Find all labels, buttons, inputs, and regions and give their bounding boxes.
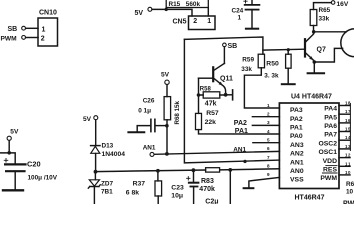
svg-text:AN1: AN1 [233, 147, 246, 154]
junction dot emitter Q7 [313, 60, 317, 64]
wire top-left L to R59 top [184, 37, 263, 54]
svg-text:AN3: AN3 [290, 142, 304, 149]
terminal 5V (D13) [94, 116, 98, 120]
svg-text:CN5: CN5 [173, 18, 187, 25]
svg-text:3. 3k: 3. 3k [264, 73, 279, 80]
svg-text:5V: 5V [10, 129, 19, 136]
junction dot R15/5V [165, 8, 168, 11]
wire R50 top stub [287, 50, 289, 55]
junction dot C26 [165, 124, 169, 128]
wire D13 to junction [95, 154, 97, 173]
svg-text:R65: R65 [319, 7, 331, 14]
junction dot collector Q7 [312, 30, 316, 34]
resistor R57 22k [196, 113, 202, 129]
svg-text:2: 2 [41, 36, 45, 43]
svg-text:ZD7: ZD7 [101, 181, 114, 188]
svg-text:R58: R58 [200, 86, 212, 92]
wire R50 bottom to ground [287, 68, 289, 83]
svg-text:PA5: PA5 [324, 114, 337, 121]
svg-text:R15: R15 [169, 1, 181, 8]
junction dot pin7 wire [243, 160, 246, 163]
overline PWM [323, 172, 338, 174]
wire VSS to ground [249, 177, 280, 187]
svg-text:AN0: AN0 [290, 168, 304, 175]
overline RES [326, 165, 337, 167]
svg-text:Q11: Q11 [220, 75, 233, 82]
svg-text:U4 HT46R47: U4 HT46R47 [291, 93, 332, 100]
svg-text:R37: R37 [133, 180, 146, 187]
svg-text:PA4: PA4 [324, 106, 337, 113]
svg-text:9: 9 [267, 172, 270, 177]
ground (C24) [246, 28, 258, 30]
svg-text:PWM: PWM [320, 175, 337, 182]
wire R15 left lead [165, 8, 167, 10]
svg-text:C24: C24 [232, 7, 244, 14]
wire 5V to CN5 pin 2 [152, 9, 192, 16]
junction dot Q11 emitter [224, 93, 228, 97]
junction dot AN1 [165, 152, 169, 156]
resistor R68 15k [164, 97, 171, 120]
svg-text:16V: 16V [337, 1, 349, 8]
svg-text:C20: C20 [27, 159, 41, 168]
ground (C26) [128, 131, 144, 133]
svg-text:OSC2: OSC2 [318, 140, 337, 147]
svg-text:VSS: VSS [290, 177, 304, 184]
ground (C20) [3, 189, 23, 191]
svg-text:10: 10 [345, 170, 351, 175]
terminal 5V (top) [148, 7, 152, 11]
wire stub pin 2 [252, 116, 279, 118]
svg-text:2: 2 [193, 18, 197, 25]
svg-text:PWM: PWM [1, 35, 18, 42]
svg-text:PA1: PA1 [235, 128, 248, 135]
terminal 5V (C20) [7, 136, 11, 140]
resistor R37 6.8k [157, 171, 159, 181]
wire stub pin 5 [253, 142, 280, 144]
wire emitter to stub bar [226, 94, 232, 96]
wire base rail to Q7 [263, 48, 304, 51]
wire R57 bottom to IC pin 4 [199, 130, 280, 134]
svg-text:PA1: PA1 [290, 125, 303, 132]
wire R59 bottom to IC pin 1 [244, 68, 279, 108]
wire stub pin 15 [339, 131, 350, 133]
svg-text:6: 6 [267, 146, 270, 151]
svg-text:8: 8 [267, 164, 270, 169]
wire emitter to motor lower terminal [316, 48, 343, 62]
svg-text:22k: 22k [205, 119, 217, 126]
wire R15 right lead to CN5 pin 1 [207, 8, 209, 17]
svg-text:PA7: PA7 [324, 132, 337, 139]
svg-text:33k: 33k [319, 15, 330, 22]
svg-text:11: 11 [345, 161, 351, 166]
svg-text:R83: R83 [201, 178, 214, 185]
ground (Q7 emitter) [308, 72, 325, 74]
zener ZD7 7B1 [94, 172, 96, 180]
resistor R65 33k [310, 10, 317, 26]
svg-text:R6: R6 [346, 181, 354, 188]
svg-text:560k: 560k [186, 1, 201, 8]
diode D13 1N4004 [91, 145, 100, 147]
svg-text:C2μ: C2μ [205, 199, 218, 204]
ground (R50) [282, 83, 295, 85]
wire big L to IC pin 7 [184, 39, 279, 162]
wire SB to Q11 collector [223, 47, 225, 64]
capacitor C23 10u [193, 170, 195, 182]
svg-text:PA2: PA2 [234, 120, 247, 127]
wire AN1 to IC pin 6 [154, 151, 279, 154]
svg-text:R57: R57 [206, 110, 219, 117]
resistor R15 560k (box, cut off at top) [166, 0, 208, 8]
svg-text:5V: 5V [161, 72, 170, 79]
wire base vertical line [198, 78, 200, 113]
svg-text:1: 1 [267, 103, 270, 108]
wire 5V to D13 [95, 120, 97, 145]
wire collector node to motor [315, 31, 346, 33]
junction dot R37 top [156, 169, 160, 173]
svg-text:470k: 470k [199, 186, 215, 193]
svg-text:SB: SB [8, 26, 18, 33]
svg-text:PA0: PA0 [290, 133, 303, 140]
capacitor C26 0.1u [150, 119, 152, 131]
junction dot C20 [7, 151, 11, 155]
junction dot ZD7 top [94, 170, 98, 174]
svg-text:PA3: PA3 [290, 107, 303, 114]
svg-text:7B1: 7B1 [101, 189, 113, 196]
wire R68 bottom to AN1 node [166, 120, 168, 154]
wire SB to CN10 pin 1 [26, 27, 38, 29]
wire R65 to collector node [313, 26, 315, 34]
svg-text:PA6: PA6 [324, 123, 337, 130]
svg-text:33k: 33k [241, 66, 252, 73]
svg-text:2: 2 [267, 112, 270, 117]
wire stub pin 18 [339, 105, 350, 107]
svg-text:3: 3 [267, 120, 270, 125]
resistor R50 3.3k [286, 54, 292, 68]
svg-text:R59: R59 [242, 57, 254, 64]
ground (VSS) [244, 187, 254, 189]
svg-text:R68 15k: R68 15k [174, 101, 181, 125]
wire PWM to CN10 pin 2 [26, 37, 38, 39]
svg-text:OSC1: OSC1 [318, 149, 337, 156]
transistor Q7 [304, 39, 306, 56]
svg-text:R50: R50 [266, 61, 279, 68]
wire stub pin 13 [339, 148, 350, 150]
svg-text:4: 4 [267, 129, 270, 134]
connector CN10 [38, 18, 58, 46]
junction dot R50 rail [287, 48, 290, 51]
resistor R83 470k [206, 168, 220, 172]
wire stub pin 17 [339, 113, 350, 115]
resistor R59 33k [258, 54, 264, 68]
svg-text:SB: SB [228, 43, 238, 50]
capacitor C20 100u/10V [4, 159, 8, 163]
capacitor C2x (cut off at bottom) [229, 170, 231, 204]
resistor R58 47k [203, 92, 220, 98]
svg-text:PA2: PA2 [290, 116, 303, 123]
svg-text:100μ /10V: 100μ /10V [28, 174, 58, 181]
junction dot R83 right [228, 168, 232, 172]
terminal AN1 [150, 152, 154, 156]
wire Q11 base [199, 77, 213, 79]
svg-text:PWM: PWM [343, 201, 354, 205]
svg-text:5V: 5V [83, 116, 92, 123]
svg-text:HT46R47: HT46R47 [295, 194, 325, 201]
stub bar [232, 90, 234, 100]
svg-text:12: 12 [345, 153, 351, 158]
wire left edge to C20 [0, 153, 15, 164]
wire stub pin 10 [339, 174, 350, 176]
svg-text:Q7: Q7 [317, 46, 326, 53]
svg-text:VDD: VDD [323, 158, 337, 165]
svg-text:AN1: AN1 [290, 159, 304, 166]
svg-text:C23: C23 [171, 185, 184, 192]
svg-text:0 1μ: 0 1μ [138, 108, 151, 115]
capacitor C24 1u [251, 0, 253, 5]
wire stub pin 12 [339, 157, 350, 159]
terminal 16V [331, 1, 335, 5]
node SB (CN10) [22, 26, 26, 30]
wire stub pin 11 [339, 165, 350, 167]
svg-text:AN2: AN2 [290, 151, 304, 158]
svg-text:1N4004: 1N4004 [102, 151, 126, 158]
node PWM (CN10) [22, 36, 26, 40]
svg-text:1: 1 [42, 26, 46, 33]
svg-text:AN1: AN1 [143, 144, 156, 151]
svg-text:1: 1 [238, 15, 242, 22]
motor M (circle, cut by edge) [341, 29, 354, 57]
svg-text:10: 10 [346, 189, 354, 196]
wire R58 leads [199, 94, 226, 96]
wire emitter to ground [313, 62, 315, 73]
transistor Q11 [212, 67, 214, 81]
svg-text:D13: D13 [102, 142, 114, 149]
wire 5V to R68 [166, 85, 168, 97]
svg-text:CN10: CN10 [39, 10, 57, 17]
svg-text:5: 5 [267, 138, 270, 143]
svg-text:6 8k: 6 8k [126, 190, 139, 197]
wire 5V to C20 [8, 141, 10, 153]
svg-text:C26: C26 [143, 97, 155, 104]
wire 16V to R65 [314, 3, 332, 10]
wire ZD7 bottom [93, 187, 95, 205]
junction dot C23 top [192, 168, 196, 172]
connector CN5 [189, 16, 216, 30]
svg-text:1: 1 [207, 18, 211, 25]
op-amp U4 HT46R47 (MCU) [279, 103, 339, 189]
svg-text:10μ: 10μ [171, 193, 183, 200]
junction dot R58 left [197, 93, 201, 97]
terminal 5V (R68) [165, 80, 169, 84]
svg-text:7: 7 [267, 155, 270, 160]
wire stub pin 3 [252, 124, 279, 126]
wire stub pin 14 [339, 139, 350, 141]
wire right edge [349, 104, 351, 151]
wire D13 node to R83/IC pin 8 [96, 170, 206, 172]
terminal SB (mid) [223, 43, 227, 47]
wire stub pin 16 [339, 122, 350, 124]
svg-text:47k: 47k [205, 100, 217, 107]
svg-text:5V: 5V [135, 10, 144, 17]
